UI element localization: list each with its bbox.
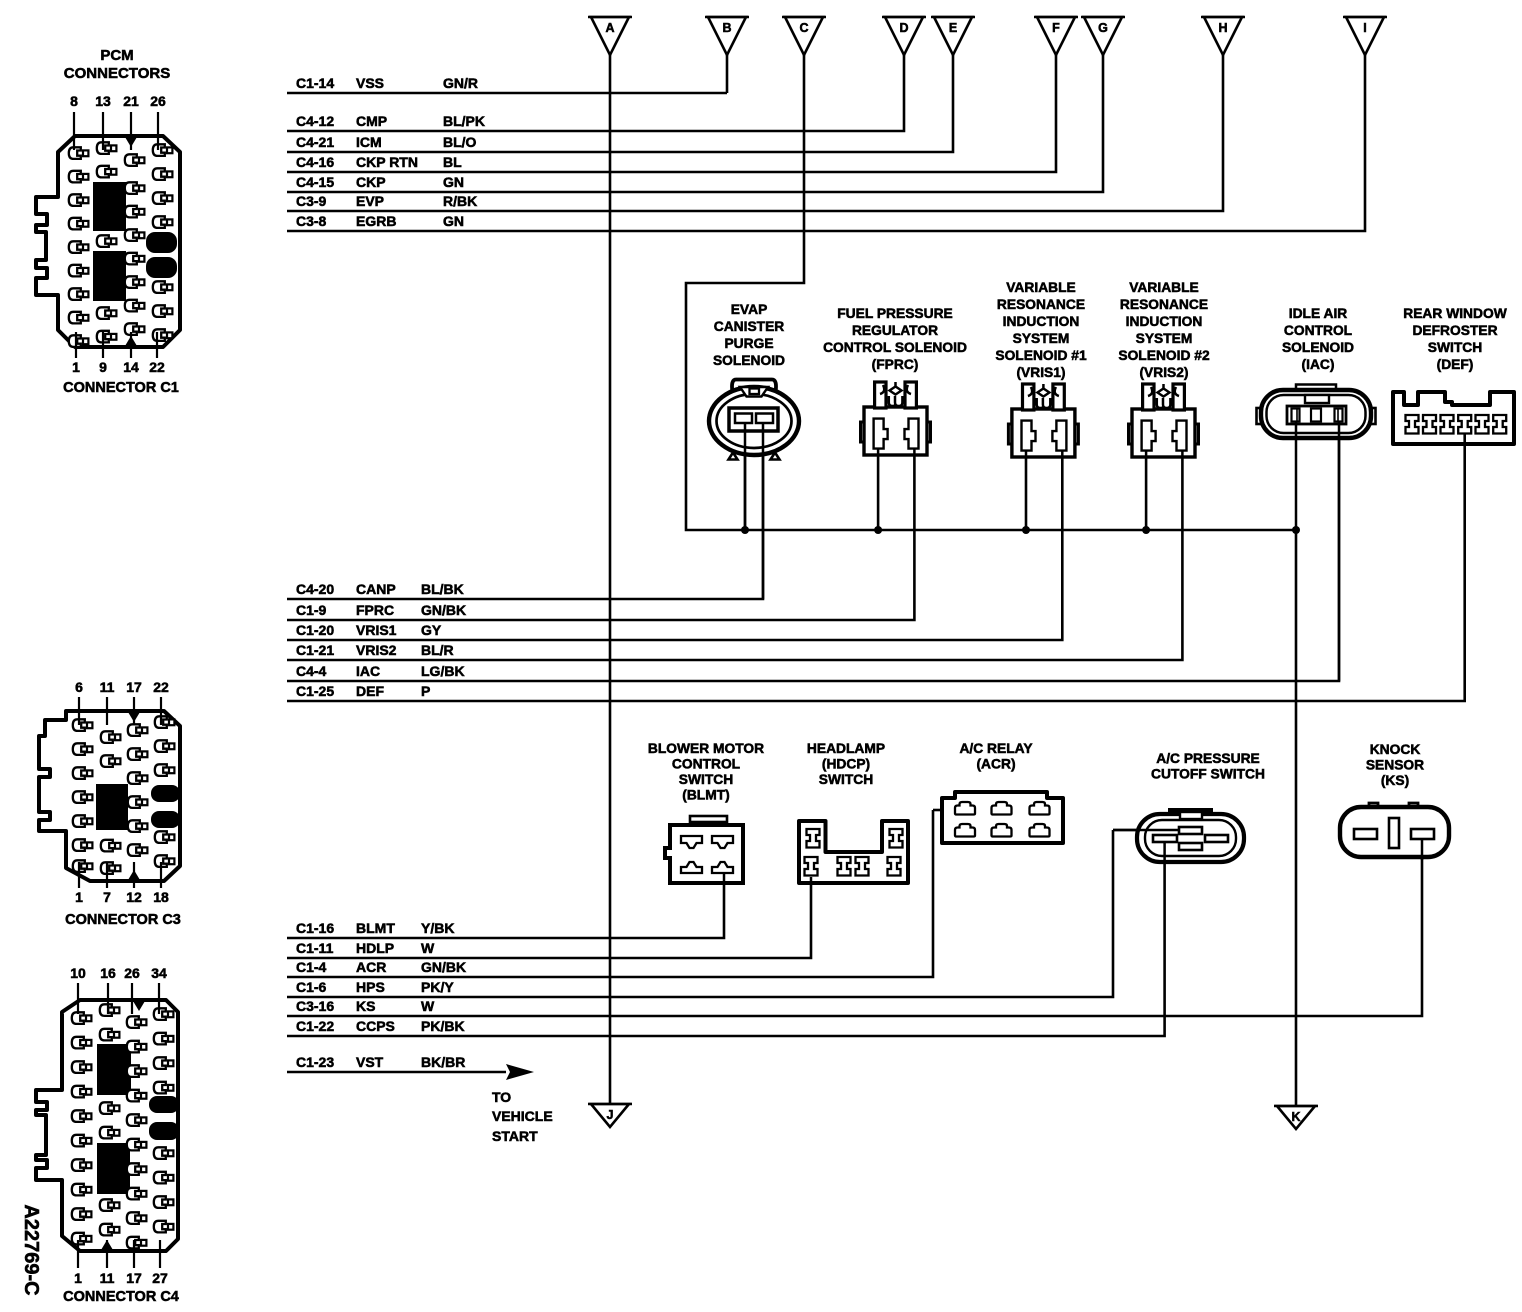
svg-text:FPRC: FPRC bbox=[356, 602, 394, 618]
svg-text:A/C RELAY: A/C RELAY bbox=[959, 741, 1032, 756]
svg-text:GN: GN bbox=[443, 213, 464, 229]
svg-text:A: A bbox=[605, 21, 614, 35]
svg-text:C1-21: C1-21 bbox=[296, 642, 334, 658]
svg-text:9: 9 bbox=[99, 359, 107, 375]
svg-text:VRIS1: VRIS1 bbox=[356, 622, 397, 638]
svg-text:34: 34 bbox=[151, 965, 167, 981]
svg-text:11: 11 bbox=[100, 1270, 115, 1286]
svg-text:11: 11 bbox=[100, 679, 115, 695]
svg-text:13: 13 bbox=[95, 93, 111, 109]
svg-text:VSS: VSS bbox=[356, 75, 384, 91]
svg-text:(FPRC): (FPRC) bbox=[872, 357, 919, 372]
svg-text:CUTOFF SWITCH: CUTOFF SWITCH bbox=[1151, 767, 1265, 782]
svg-text:DEF: DEF bbox=[356, 683, 384, 699]
svg-text:C1-22: C1-22 bbox=[296, 1018, 334, 1034]
svg-text:27: 27 bbox=[152, 1270, 168, 1286]
svg-text:IDLE AIR: IDLE AIR bbox=[1289, 306, 1348, 321]
svg-text:CONTROL SOLENOID: CONTROL SOLENOID bbox=[823, 340, 967, 355]
svg-text:C3-16: C3-16 bbox=[296, 998, 334, 1014]
svg-text:CANP: CANP bbox=[356, 581, 396, 597]
svg-text:B: B bbox=[722, 21, 731, 35]
svg-text:H: H bbox=[1218, 21, 1227, 35]
svg-text:LG/BK: LG/BK bbox=[421, 663, 465, 679]
svg-text:(HDCP): (HDCP) bbox=[822, 757, 870, 772]
svg-text:PK/Y: PK/Y bbox=[421, 979, 454, 995]
svg-text:REGULATOR: REGULATOR bbox=[852, 323, 938, 338]
svg-text:GN: GN bbox=[443, 174, 464, 190]
svg-text:IAC: IAC bbox=[356, 663, 380, 679]
svg-text:GN/BK: GN/BK bbox=[421, 602, 466, 618]
svg-text:KS: KS bbox=[356, 998, 375, 1014]
svg-text:SOLENOID #1: SOLENOID #1 bbox=[995, 348, 1087, 363]
svg-text:HEADLAMP: HEADLAMP bbox=[807, 741, 885, 756]
svg-text:CONNECTOR C4: CONNECTOR C4 bbox=[63, 1289, 179, 1305]
svg-text:VEHICLE: VEHICLE bbox=[492, 1108, 553, 1124]
svg-text:(KS): (KS) bbox=[1381, 773, 1409, 788]
svg-text:VARIABLE: VARIABLE bbox=[1129, 280, 1199, 295]
svg-text:K: K bbox=[1291, 1110, 1300, 1124]
svg-text:HPS: HPS bbox=[356, 979, 385, 995]
svg-text:HDLP: HDLP bbox=[356, 940, 394, 956]
svg-text:E: E bbox=[949, 21, 957, 35]
svg-text:EVAP: EVAP bbox=[731, 302, 768, 317]
svg-text:(IAC): (IAC) bbox=[1302, 357, 1335, 372]
svg-text:CONNECTOR C3: CONNECTOR C3 bbox=[65, 912, 181, 928]
svg-text:PCM: PCM bbox=[100, 47, 133, 64]
svg-text:C1-25: C1-25 bbox=[296, 683, 334, 699]
svg-text:ACR: ACR bbox=[356, 959, 386, 975]
svg-text:22: 22 bbox=[153, 679, 169, 695]
svg-text:P: P bbox=[421, 683, 430, 699]
svg-text:SWITCH: SWITCH bbox=[819, 772, 873, 787]
svg-text:BLOWER MOTOR: BLOWER MOTOR bbox=[648, 741, 764, 756]
svg-text:BL/PK: BL/PK bbox=[443, 113, 485, 129]
svg-text:R/BK: R/BK bbox=[443, 193, 477, 209]
svg-text:RESONANCE: RESONANCE bbox=[997, 297, 1085, 312]
svg-text:7: 7 bbox=[103, 889, 111, 905]
svg-text:VST: VST bbox=[356, 1054, 384, 1070]
svg-text:SOLENOID: SOLENOID bbox=[1282, 340, 1354, 355]
svg-text:SWITCH: SWITCH bbox=[679, 772, 733, 787]
svg-text:GN/BK: GN/BK bbox=[421, 959, 466, 975]
svg-text:SOLENOID #2: SOLENOID #2 bbox=[1118, 348, 1210, 363]
svg-text:DEFROSTER: DEFROSTER bbox=[1412, 323, 1497, 338]
svg-text:START: START bbox=[492, 1128, 538, 1144]
svg-text:16: 16 bbox=[100, 965, 116, 981]
svg-text:A22769-C: A22769-C bbox=[20, 1204, 42, 1295]
svg-text:26: 26 bbox=[124, 965, 140, 981]
svg-text:SOLENOID: SOLENOID bbox=[713, 353, 785, 368]
svg-text:C4-12: C4-12 bbox=[296, 113, 334, 129]
svg-text:C4-20: C4-20 bbox=[296, 581, 334, 597]
svg-text:VARIABLE: VARIABLE bbox=[1006, 280, 1076, 295]
svg-text:C1-4: C1-4 bbox=[296, 959, 327, 975]
svg-text:BL/O: BL/O bbox=[443, 134, 477, 150]
svg-text:CKP RTN: CKP RTN bbox=[356, 154, 418, 170]
svg-text:CONNECTOR C1: CONNECTOR C1 bbox=[63, 380, 179, 396]
svg-text:26: 26 bbox=[150, 93, 166, 109]
svg-text:A/C PRESSURE: A/C PRESSURE bbox=[1156, 751, 1260, 766]
svg-text:21: 21 bbox=[123, 93, 139, 109]
svg-text:CMP: CMP bbox=[356, 113, 387, 129]
svg-text:CCPS: CCPS bbox=[356, 1018, 395, 1034]
svg-text:CONTROL: CONTROL bbox=[672, 757, 740, 772]
svg-text:6: 6 bbox=[75, 679, 83, 695]
svg-text:TO: TO bbox=[492, 1089, 511, 1105]
svg-text:EVP: EVP bbox=[356, 193, 384, 209]
svg-text:GN/R: GN/R bbox=[443, 75, 478, 91]
svg-text:C1-20: C1-20 bbox=[296, 622, 334, 638]
svg-text:BL/R: BL/R bbox=[421, 642, 454, 658]
svg-text:8: 8 bbox=[70, 93, 78, 109]
svg-text:(BLMT): (BLMT) bbox=[682, 788, 730, 803]
svg-text:10: 10 bbox=[70, 965, 86, 981]
svg-text:BK/BR: BK/BR bbox=[421, 1054, 465, 1070]
svg-text:Y/BK: Y/BK bbox=[421, 920, 454, 936]
svg-text:PK/BK: PK/BK bbox=[421, 1018, 465, 1034]
svg-text:C4-21: C4-21 bbox=[296, 134, 334, 150]
svg-text:(VRIS2): (VRIS2) bbox=[1139, 365, 1188, 380]
svg-text:W: W bbox=[421, 940, 435, 956]
svg-text:14: 14 bbox=[123, 359, 139, 375]
svg-text:G: G bbox=[1098, 21, 1108, 35]
svg-text:C1-6: C1-6 bbox=[296, 979, 327, 995]
svg-text:SENSOR: SENSOR bbox=[1366, 758, 1424, 773]
svg-text:RESONANCE: RESONANCE bbox=[1120, 297, 1208, 312]
svg-text:VRIS2: VRIS2 bbox=[356, 642, 397, 658]
svg-text:1: 1 bbox=[74, 1270, 82, 1286]
svg-text:C: C bbox=[799, 21, 808, 35]
svg-text:F: F bbox=[1052, 21, 1060, 35]
svg-text:D: D bbox=[899, 21, 908, 35]
svg-text:CONTROL: CONTROL bbox=[1284, 323, 1352, 338]
svg-text:12: 12 bbox=[126, 889, 142, 905]
svg-text:SWITCH: SWITCH bbox=[1428, 340, 1482, 355]
svg-text:C4-15: C4-15 bbox=[296, 174, 334, 190]
svg-text:18: 18 bbox=[153, 889, 169, 905]
svg-text:C1-9: C1-9 bbox=[296, 602, 327, 618]
svg-text:BL: BL bbox=[443, 154, 462, 170]
svg-text:W: W bbox=[421, 998, 435, 1014]
svg-text:ICM: ICM bbox=[356, 134, 382, 150]
svg-text:FUEL PRESSURE: FUEL PRESSURE bbox=[837, 306, 953, 321]
svg-text:C3-9: C3-9 bbox=[296, 193, 327, 209]
svg-text:INDUCTION: INDUCTION bbox=[1003, 314, 1080, 329]
svg-text:(VRIS1): (VRIS1) bbox=[1016, 365, 1065, 380]
svg-text:(ACR): (ACR) bbox=[976, 757, 1015, 772]
svg-text:CANISTER: CANISTER bbox=[714, 319, 785, 334]
svg-text:INDUCTION: INDUCTION bbox=[1126, 314, 1203, 329]
svg-text:(DEF): (DEF) bbox=[1437, 357, 1474, 372]
svg-text:C1-23: C1-23 bbox=[296, 1054, 334, 1070]
svg-text:22: 22 bbox=[149, 359, 165, 375]
svg-text:PURGE: PURGE bbox=[724, 336, 773, 351]
svg-text:BL/BK: BL/BK bbox=[421, 581, 464, 597]
svg-text:I: I bbox=[1363, 21, 1366, 35]
svg-text:KNOCK: KNOCK bbox=[1370, 742, 1421, 757]
svg-text:SYSTEM: SYSTEM bbox=[1013, 331, 1070, 346]
svg-text:BLMT: BLMT bbox=[356, 920, 395, 936]
svg-text:17: 17 bbox=[126, 679, 142, 695]
svg-text:SYSTEM: SYSTEM bbox=[1136, 331, 1193, 346]
svg-text:C1-14: C1-14 bbox=[296, 75, 334, 91]
svg-text:CONNECTORS: CONNECTORS bbox=[64, 65, 170, 82]
svg-text:GY: GY bbox=[421, 622, 442, 638]
svg-text:C4-4: C4-4 bbox=[296, 663, 327, 679]
svg-text:C4-16: C4-16 bbox=[296, 154, 334, 170]
svg-text:J: J bbox=[607, 1108, 614, 1122]
svg-text:17: 17 bbox=[126, 1270, 142, 1286]
svg-text:CKP: CKP bbox=[356, 174, 386, 190]
svg-text:1: 1 bbox=[72, 359, 80, 375]
svg-text:REAR WINDOW: REAR WINDOW bbox=[1403, 306, 1507, 321]
svg-text:EGRB: EGRB bbox=[356, 213, 396, 229]
svg-text:1: 1 bbox=[75, 889, 83, 905]
svg-text:C1-11: C1-11 bbox=[296, 940, 334, 956]
svg-text:C3-8: C3-8 bbox=[296, 213, 327, 229]
svg-text:C1-16: C1-16 bbox=[296, 920, 334, 936]
